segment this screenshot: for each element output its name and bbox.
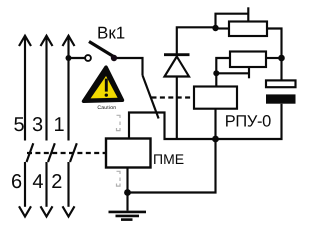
wire branch to Bk1: [69, 57, 86, 59]
wire phase line L3 bottom: [67, 162, 69, 207]
wire node D down and left to ground node: [128, 139, 216, 193]
capacitor C1 bottom plate: [266, 94, 296, 103]
node A: [212, 25, 218, 31]
svg-text:6: 6: [11, 171, 22, 193]
wire capacitor bottom to node D: [216, 104, 282, 139]
wire phase line L3 top: [67, 36, 69, 141]
svg-text:1: 1: [53, 114, 64, 136]
wire phase line L1 top: [24, 36, 26, 141]
resistor R2: [230, 52, 266, 68]
ground node E: [124, 189, 131, 196]
wire node B to capacitor: [280, 58, 282, 80]
svg-text:3: 3: [32, 114, 43, 136]
arrow up phase L1: [19, 36, 31, 46]
svg-text:РПУ-0: РПУ-0: [225, 112, 271, 130]
wire R2 bottom stub: [248, 67, 250, 78]
wire PME coil bottom: [126, 168, 128, 193]
resistor R1: [229, 22, 267, 37]
pin marks above PME: [117, 115, 121, 130]
wire R1 right down: [267, 29, 282, 59]
switch blade pole 2: [48, 143, 55, 162]
wire R2 left down to node C: [216, 58, 230, 73]
arrow down phase L2: [41, 206, 53, 216]
pin marks below PME: [117, 171, 121, 186]
svg-text:2: 2: [51, 171, 62, 193]
ground: [126, 193, 128, 211]
svg-text:4: 4: [32, 171, 43, 193]
wire R2 right to node B: [266, 57, 282, 59]
contact blade KM1: [142, 75, 158, 119]
arrow up phase L3: [63, 36, 75, 46]
svg-text:Caution: Caution: [97, 105, 116, 111]
switch Bk1 pivot circle: [85, 55, 91, 61]
capacitor C1 top plate: [266, 80, 296, 87]
node B: [278, 55, 285, 62]
junction node on L3: [66, 55, 72, 61]
dashed mechanical link to PME: [27, 152, 106, 154]
switch Bk1 contact dot: [111, 55, 117, 61]
node D: [212, 136, 219, 143]
wire RPU coil bottom to node D: [214, 109, 216, 139]
diode VD1: [165, 57, 190, 77]
node C: [213, 70, 219, 76]
relay coil RPU-0 box: [194, 87, 237, 109]
wire loop over R1: [216, 14, 249, 28]
wire node C to RPU coil: [215, 73, 217, 86]
switch Bk1 blade: [89, 42, 114, 57]
switch blade pole 1: [27, 143, 34, 162]
wire diode anode lead: [176, 77, 178, 140]
arrow down phase L3: [63, 206, 75, 216]
diode VD1 cathode bar: [164, 53, 190, 56]
arrow up phase L2: [41, 36, 53, 46]
switch blade pole 3: [70, 143, 77, 162]
wire contact to PME coil and node D: [129, 113, 216, 140]
wire phase line L2 top: [45, 36, 47, 141]
svg-text:ПМЕ: ПМЕ: [153, 151, 184, 167]
wire node A to R1: [216, 27, 230, 29]
wire Bk1 to corner: [117, 58, 143, 75]
contactor coil PME box: [106, 139, 151, 168]
svg-text:5: 5: [13, 114, 24, 136]
arrow down phase L1: [19, 206, 31, 216]
wire diode cathode to node A: [177, 27, 216, 54]
wire phase line L2 bottom: [45, 162, 47, 207]
dashed mechanical link to RPU: [152, 96, 195, 98]
wire phase line L1 bottom: [24, 162, 26, 207]
wire R1 top stub: [247, 7, 249, 21]
wire loop under R2: [216, 72, 249, 74]
svg-text:Вк1: Вк1: [97, 24, 125, 43]
warning sign: [84, 67, 123, 111]
